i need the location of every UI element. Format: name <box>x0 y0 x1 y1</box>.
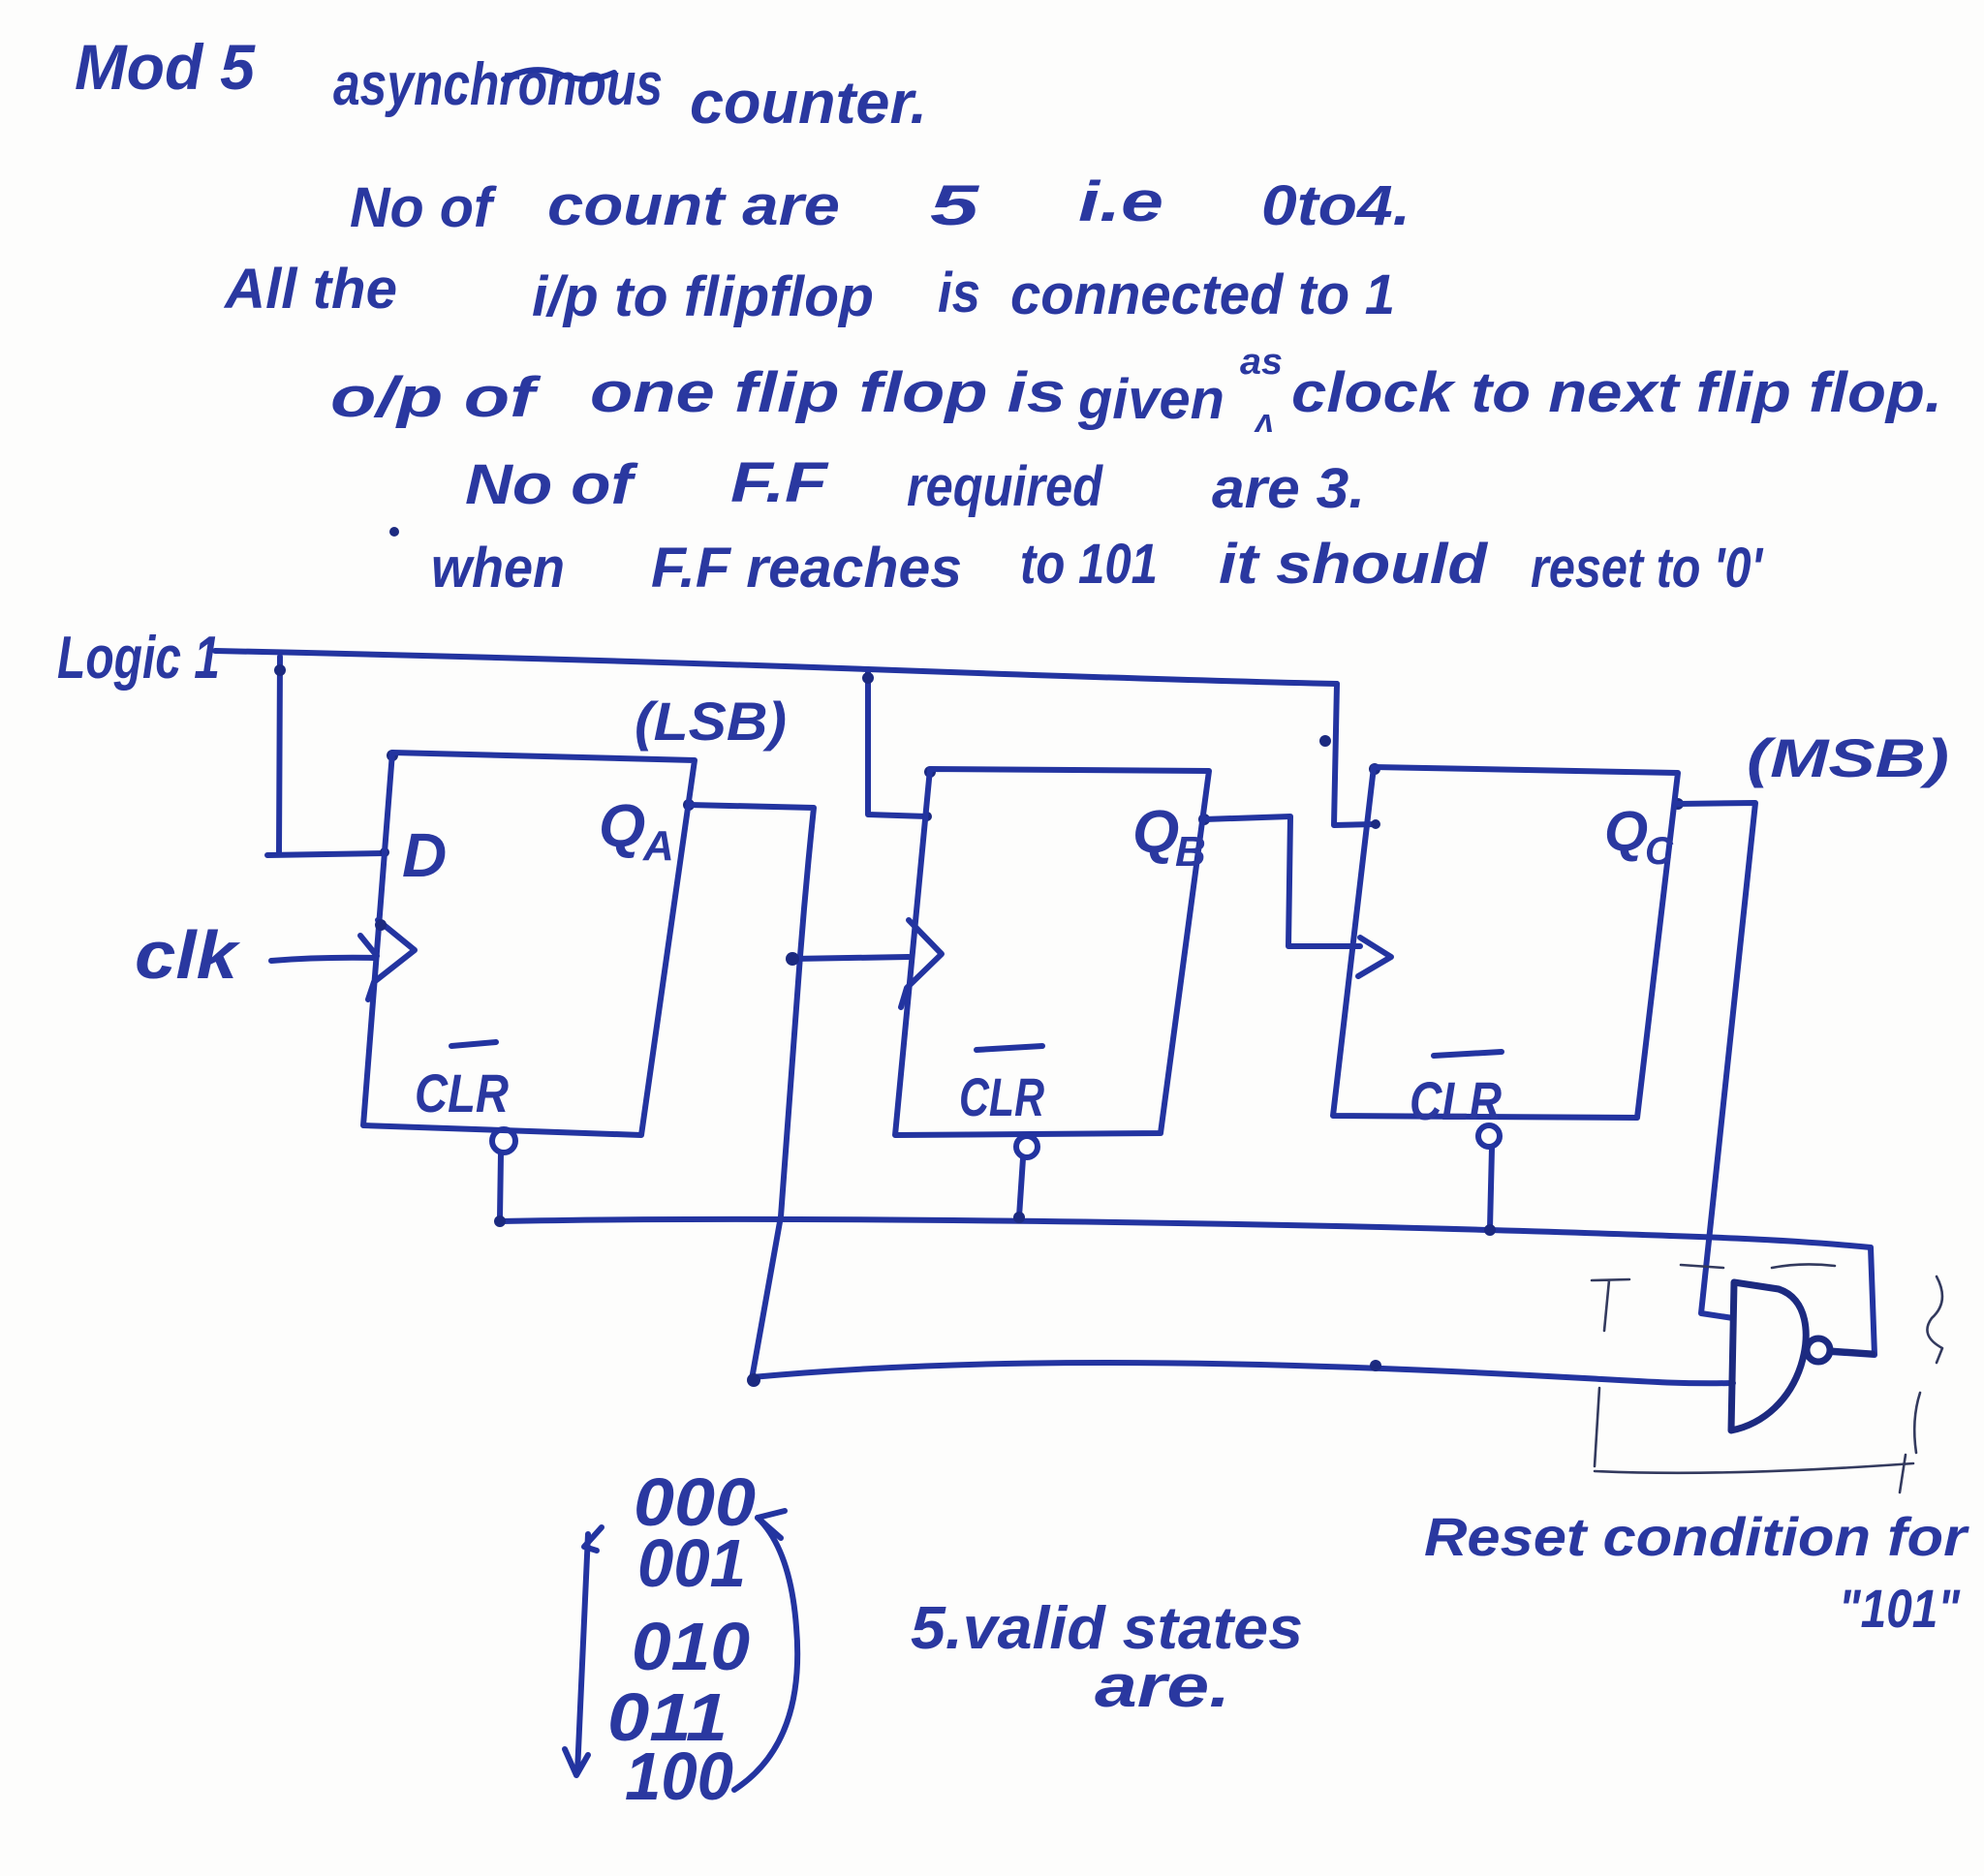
arrow state sequence down <box>577 1534 588 1772</box>
wire drop to D of FF1 <box>267 657 385 855</box>
svg-text:(LSB): (LSB) <box>635 691 787 752</box>
wire CLR stem U1 <box>500 1153 501 1217</box>
node corner blob QA feedback <box>747 1373 760 1387</box>
node dot at clk pin <box>375 919 387 931</box>
svg-text:given: given <box>1077 368 1224 431</box>
sketch T mark near NAND input <box>1592 1279 1629 1331</box>
clock wedge U3 <box>1358 938 1391 976</box>
svg-text:5.valid states: 5.valid states <box>911 1595 1303 1662</box>
pin QA label U1 <box>599 793 674 870</box>
svg-text:Q: Q <box>599 793 645 860</box>
svg-text:001: 001 <box>637 1525 746 1601</box>
note line 2: All the i/p to flipflop is connected to 1 <box>223 258 1395 328</box>
svg-text:CLR: CLR <box>1410 1070 1502 1131</box>
wire QB to clock of U3 <box>1204 816 1360 946</box>
svg-text:ʌ: ʌ <box>1254 403 1274 440</box>
wire CLR stem U3 <box>1490 1148 1492 1228</box>
label 5 valid states are <box>911 1595 1303 1720</box>
svg-text:o/p of: o/p of <box>330 366 542 429</box>
wire drop to D of FF3 <box>1334 684 1376 825</box>
pin QC label U3 <box>1604 800 1674 873</box>
svg-text:No of: No of <box>350 176 498 239</box>
wire CLR stem U2 <box>1019 1158 1023 1216</box>
wire logic-1 bus <box>215 651 1337 684</box>
svg-text:clk: clk <box>135 917 240 993</box>
node junction dot QA/clock <box>786 952 799 966</box>
svg-text:C: C <box>1645 830 1674 873</box>
svg-text:as: as <box>1240 342 1283 383</box>
clear bubble U3 <box>1478 1125 1500 1147</box>
wire drop to D of FF2 <box>868 669 927 816</box>
svg-text:CLR: CLR <box>959 1066 1044 1127</box>
sketch box bottom right squiggle <box>1914 1393 1920 1453</box>
wire QC down to NAND input <box>1678 803 1755 1318</box>
note line 3: o/p of one flip flop is given as clock to next flip flop. <box>330 342 1942 440</box>
sketch box bottom line <box>1595 1463 1913 1473</box>
wire QA feedback to NAND lower input <box>752 1363 1733 1383</box>
svg-text:010: 010 <box>632 1609 750 1684</box>
arrow state wrap 100 to 000 <box>734 1518 797 1790</box>
label Reset condition for "101" <box>1424 1506 1970 1639</box>
pin CLR label U3 <box>1410 1052 1502 1131</box>
svg-text:A: A <box>642 822 674 870</box>
svg-text:one flip flop is: one flip flop is <box>590 361 1066 424</box>
svg-text:F.F: F.F <box>730 451 829 514</box>
svg-text:Logic 1: Logic 1 <box>57 625 220 692</box>
svg-text:is: is <box>938 261 980 324</box>
node dot bus U2 <box>1013 1212 1025 1223</box>
clear bubble U1 <box>492 1129 515 1153</box>
node corner dots <box>387 750 398 761</box>
flip-flop U1 box <box>363 753 695 1135</box>
svg-text:(MSB): (MSB) <box>1747 727 1949 788</box>
svg-text:100: 100 <box>625 1738 733 1814</box>
svg-text:All the: All the <box>223 258 397 321</box>
wire QA to clock of U2 <box>689 805 814 1379</box>
svg-text:D: D <box>402 820 447 890</box>
note line 5: when F.F reaches to 101 it should reset to '0' <box>431 533 1764 600</box>
clock wedge U1 <box>368 920 415 1000</box>
svg-text:clock to next flip flop.: clock to next flip flop. <box>1291 361 1942 424</box>
flip-flop U2 box <box>895 769 1209 1135</box>
node junction dot bus/FF1 <box>274 664 286 676</box>
flip-flop U3 box <box>1333 767 1678 1118</box>
nand gate U4 body <box>1731 1282 1806 1430</box>
svg-text:to 101: to 101 <box>1020 533 1158 596</box>
svg-text:Reset condition for: Reset condition for <box>1424 1506 1970 1567</box>
svg-text:F.F reaches: F.F reaches <box>651 537 962 600</box>
clear bubble U2 <box>1016 1136 1038 1157</box>
wire NAND output to bus riser <box>1831 1351 1873 1354</box>
svg-text:0to4.: 0to4. <box>1261 174 1410 237</box>
svg-text:5: 5 <box>930 174 979 237</box>
pin QB label U2 <box>1132 799 1206 876</box>
node junction dot on FF3 drop <box>1319 735 1331 747</box>
sketch bottom right tick <box>1900 1455 1906 1492</box>
svg-text:B: B <box>1175 828 1206 876</box>
svg-text:it should: it should <box>1219 533 1489 596</box>
stray ink dot <box>389 527 399 537</box>
pin CLR label U1 <box>415 1042 509 1123</box>
sketch right curly bracket <box>1927 1276 1942 1363</box>
wire branch to U2 clock <box>792 957 909 959</box>
clock wedge U2 <box>901 920 942 1007</box>
svg-text:Q: Q <box>1132 799 1179 866</box>
svg-text:counter.: counter. <box>690 70 927 137</box>
sketch box left lower line <box>1595 1388 1599 1466</box>
svg-text:No of: No of <box>465 453 639 516</box>
svg-text:CLR: CLR <box>415 1062 509 1123</box>
svg-text:reset to '0': reset to '0' <box>1531 537 1764 600</box>
svg-text:Mod 5: Mod 5 <box>75 31 256 103</box>
node junction dot bus/FF2 <box>862 672 874 684</box>
svg-text:i.e: i.e <box>1078 170 1163 233</box>
svg-text:required: required <box>907 455 1103 518</box>
note line 4: No of F.F required are 3. <box>465 451 1365 520</box>
wire CLR bus to NAND output <box>500 1219 1875 1355</box>
svg-text:are.: are. <box>1095 1653 1230 1720</box>
svg-text:connected to 1: connected to 1 <box>1010 263 1395 326</box>
svg-text:when: when <box>431 537 565 600</box>
node dot bus U1 <box>494 1215 506 1227</box>
svg-text:i/p to flipflop: i/p to flipflop <box>532 265 874 328</box>
wire clk input arrow <box>271 958 374 961</box>
node dot bus U3 <box>1484 1224 1496 1236</box>
svg-text:are 3.: are 3. <box>1212 457 1365 520</box>
pin CLR label U2 <box>959 1046 1044 1127</box>
sketch box top line <box>1681 1264 1835 1268</box>
node ink blob on feedback wire <box>1370 1360 1381 1371</box>
note line 1: No of count are 5 i.e 0to4. <box>350 170 1410 239</box>
svg-text:"101": "101" <box>1839 1578 1961 1639</box>
overdraw scribble on asynchronous <box>504 70 614 79</box>
title: Mod 5 asynchronous counter. <box>75 31 927 137</box>
svg-text:asynchronous: asynchronous <box>333 51 663 118</box>
nand gate U4 bubble <box>1807 1338 1830 1362</box>
svg-text:Q: Q <box>1604 800 1648 863</box>
svg-text:count are: count are <box>547 174 840 237</box>
